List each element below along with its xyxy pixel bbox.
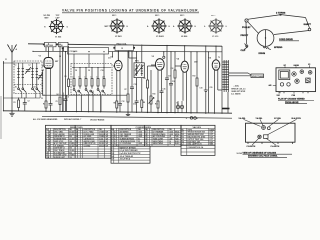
svg-text:C12: C12 xyxy=(122,101,125,103)
svg-text:A.E.1000: A.E.1000 xyxy=(46,44,54,47)
wire: aerial feeder xyxy=(11,62,13,111)
V5 electrodes xyxy=(214,63,218,68)
svg-text:V4 GRID: V4 GRID xyxy=(84,144,92,147)
chassis plan outline xyxy=(276,68,316,92)
svg-text:SURGE LIMIT: SURGE LIMIT xyxy=(54,157,66,159)
wire: AGC drop xyxy=(131,52,133,88)
svg-text:V1: V1 xyxy=(39,56,42,58)
ground: aerial circuit earth xyxy=(9,111,14,116)
capacitor C14 xyxy=(135,99,139,112)
svg-text:C8: C8 xyxy=(75,70,77,72)
svg-text:CAP: CAP xyxy=(56,17,61,20)
svg-text:8: 8 xyxy=(112,150,113,152)
resistor R1 xyxy=(18,98,20,111)
table: condensers grid xyxy=(111,128,181,146)
output transformer T3 xyxy=(222,46,229,92)
V2 electrodes xyxy=(116,64,120,68)
svg-text:NO 1: NO 1 xyxy=(155,15,159,17)
valve V2 IF amplifier W61 xyxy=(115,61,123,71)
svg-text:C5: C5 xyxy=(56,101,58,103)
screened coil box (dashed) aerial coils xyxy=(14,61,42,94)
waveband switch S2d xyxy=(90,90,94,94)
valve socket V5 underside view xyxy=(204,15,228,38)
svg-text:C10: C10 xyxy=(101,70,104,72)
wire: coil pack switch drops xyxy=(77,93,101,112)
valve V3 double-diode-triode DH63 xyxy=(155,59,164,71)
table: valves grid xyxy=(181,128,215,145)
svg-text:C.A.ROTH: C.A.ROTH xyxy=(271,145,280,148)
wire: switch common drops xyxy=(63,91,101,112)
wire: left-hand bus xyxy=(3,61,5,111)
resistor R7 (screen) xyxy=(127,94,129,102)
svg-text:R3: R3 xyxy=(43,104,45,106)
svg-text:C9: C9 xyxy=(88,70,90,72)
wire: V1 connections xyxy=(42,47,64,99)
capacitor C5 (V1 cathode) xyxy=(49,99,53,111)
IFT1 trimmer arrows xyxy=(135,64,144,75)
svg-text:A: A xyxy=(16,48,18,51)
wire: osc section drops xyxy=(60,46,69,111)
svg-text:MET: MET xyxy=(45,18,50,20)
svg-text:ELEC: ELEC xyxy=(175,143,180,145)
svg-text:FRONT: FRONT xyxy=(241,35,249,37)
svg-text:SMOOTHING: SMOOTHING xyxy=(153,143,164,145)
svg-text:.001 μF MICA: .001 μF MICA xyxy=(120,158,131,161)
wire: V5 connections xyxy=(215,46,223,113)
svg-text:H: H xyxy=(44,27,46,29)
svg-text:120: 120 xyxy=(69,157,72,159)
volume control R10 xyxy=(149,96,155,113)
svg-text:R6: R6 xyxy=(114,103,116,105)
svg-text:+ DIAL: + DIAL xyxy=(234,84,239,87)
waveband switch S2e xyxy=(97,89,101,94)
svg-text:V1 X65: V1 X65 xyxy=(55,37,61,39)
valve socket V3 underside view xyxy=(147,15,171,38)
chassis plan: smoothing block (hatched) xyxy=(306,78,311,83)
note: speaker notes xyxy=(231,84,246,95)
svg-text:L8: L8 xyxy=(90,77,92,79)
resistor R4 xyxy=(59,97,61,111)
capacitor C12 (V2 cathode) xyxy=(118,99,122,112)
coil L7 xyxy=(85,68,87,89)
node: coil pack bus dots xyxy=(43,67,104,96)
chassis plan: valve V1 position xyxy=(292,72,296,76)
capacitor C18 xyxy=(169,84,173,113)
chassis plan: mains transformer xyxy=(279,70,290,80)
wire: mains drops xyxy=(222,92,228,113)
table: condensers divider xyxy=(144,125,146,146)
V4 electrodes xyxy=(183,65,187,69)
svg-text:NO 1: NO 1 xyxy=(211,15,215,17)
resistor R6 (V2 cathode) xyxy=(116,99,118,112)
table: resistors divider xyxy=(74,125,76,158)
svg-text:15: 15 xyxy=(112,153,114,155)
svg-text:C19: C19 xyxy=(200,88,203,90)
chassis plan: bottom labels xyxy=(277,92,296,97)
table: valves rows xyxy=(182,128,215,145)
svg-text:V3 DH63: V3 DH63 xyxy=(156,36,164,38)
wire: V2 connections xyxy=(113,52,121,100)
trimmer capacitor T1 xyxy=(25,67,31,74)
coil L5 xyxy=(73,68,75,89)
svg-text:R8: R8 xyxy=(143,102,145,104)
table: condensers extension rows xyxy=(112,146,142,160)
svg-text:7: 7 xyxy=(112,147,113,149)
wire: AVC line xyxy=(148,66,156,113)
svg-text:8 μF 450V ELECTROLYTIC: 8 μF 450V ELECTROLYTIC xyxy=(120,152,142,155)
svg-text:SPRING: SPRING xyxy=(274,47,283,49)
svg-text:V4: V4 xyxy=(177,58,180,61)
svg-text:C2: C2 xyxy=(28,101,30,103)
waveband switch S2a xyxy=(73,89,77,94)
wire: screen feed drop xyxy=(127,52,129,113)
svg-text:R13: R13 xyxy=(193,76,196,78)
aerial A xyxy=(8,45,17,63)
svg-text:L7: L7 xyxy=(84,77,86,79)
capacitor C13 xyxy=(130,87,134,112)
wire: screen rail (top rail B) xyxy=(33,50,222,53)
svg-text:V.A.DBL: V.A.DBL xyxy=(239,117,247,120)
wire: diode load xyxy=(150,70,152,96)
capacitor C6 xyxy=(64,99,68,111)
svg-text:C20: C20 xyxy=(210,87,213,89)
wire: heater rail (bottom second) xyxy=(42,116,232,118)
svg-text:GANG: GANG xyxy=(294,64,300,67)
svg-text:14: 14 xyxy=(145,142,147,145)
svg-text:L10: L10 xyxy=(102,77,105,79)
svg-text:MET: MET xyxy=(55,61,58,63)
svg-text:17: 17 xyxy=(112,159,114,161)
chassis plan: side label A/E xyxy=(269,84,277,87)
wire: chassis rail (bottom) xyxy=(4,111,233,113)
V3 top cap grid xyxy=(163,52,165,59)
IFT1 secondary winding xyxy=(141,64,143,76)
cord drive: tuning spindle xyxy=(308,28,311,31)
fuse holder pair xyxy=(176,101,183,113)
svg-text:.0001: .0001 xyxy=(138,143,142,145)
underside view: coil pack tags xyxy=(258,126,270,139)
wire: HT rail (top rail A) xyxy=(28,44,222,46)
IFT1 primary winding xyxy=(136,64,138,76)
cord drive: mounting bracket xyxy=(244,44,248,50)
wave trap box xyxy=(59,42,69,47)
svg-text:R4: R4 xyxy=(57,93,59,96)
oscillator coil pack box (dashed) xyxy=(71,64,112,95)
electrolytic C19 xyxy=(204,46,208,113)
svg-text:A: A xyxy=(114,142,116,145)
cord drive labels xyxy=(241,13,312,55)
node: junction dots left xyxy=(3,62,25,111)
svg-text:T3: T3 xyxy=(218,57,220,59)
cord drive label underline xyxy=(279,40,299,42)
coil L1 xyxy=(17,66,19,82)
waveband switch S1d xyxy=(36,82,40,92)
svg-text:VALVES: VALVES xyxy=(193,126,202,129)
wire: coil pack top bus xyxy=(72,67,111,69)
table: resistors grid xyxy=(46,128,112,158)
svg-text:ALL VOLTAGES MEASURED: ALL VOLTAGES MEASURED xyxy=(33,118,58,121)
svg-text:ON 250V RANGE: ON 250V RANGE xyxy=(90,118,105,121)
title: VALVE PIN POSITIONS LOOKING AT UNDERSIDE OF VALVEHOLDER xyxy=(62,8,199,13)
waveband switch S1a xyxy=(18,82,22,92)
svg-text:V5 U50: V5 U50 xyxy=(212,36,218,38)
svg-text:H: H xyxy=(127,26,129,28)
cord drive: tuning drum xyxy=(257,30,274,47)
svg-text:A: A xyxy=(173,25,175,28)
cord drive: tension spring xyxy=(263,47,271,50)
svg-text:S.234: S.234 xyxy=(237,152,243,155)
svg-text:2 TURNS: 2 TURNS xyxy=(276,13,286,15)
wire: IFT1 connections xyxy=(137,46,142,99)
svg-text:WITH AVO MODEL 7: WITH AVO MODEL 7 xyxy=(64,118,81,121)
resistor R13 xyxy=(196,78,198,86)
table: condensers frame xyxy=(111,125,181,146)
chassis plan: rear pins xyxy=(280,92,308,94)
svg-text:L9: L9 xyxy=(96,77,98,79)
svg-text:PULLEY: PULLEY xyxy=(242,27,251,29)
IF transformer IFT1 xyxy=(134,63,144,78)
field coil box xyxy=(62,43,137,60)
svg-text:A/E: A/E xyxy=(269,84,273,87)
cord drive: cord run xyxy=(246,14,310,44)
V1 electrodes xyxy=(46,61,52,67)
svg-text:R11: R11 xyxy=(155,104,158,106)
svg-text:B: B xyxy=(49,150,51,152)
wire: HT decoupling drop 1 xyxy=(166,46,168,78)
scan edge mark xyxy=(0,96,2,139)
svg-text:FIELD COIL: FIELD COIL xyxy=(117,43,128,45)
underside view outline xyxy=(246,123,296,142)
svg-text:A: A xyxy=(147,25,149,28)
svg-text:V5F: V5F xyxy=(277,95,281,97)
dial lamp DL1 xyxy=(190,117,196,120)
V3 electrodes xyxy=(157,62,163,69)
trimmer capacitor T2 xyxy=(38,74,42,80)
svg-text:T.A.DBL: T.A.DBL xyxy=(256,117,264,120)
wire: heater feeds xyxy=(191,52,197,114)
table: resistors frame xyxy=(46,125,112,158)
svg-text:SHAFT: SHAFT xyxy=(304,23,312,26)
svg-text:16: 16 xyxy=(169,143,171,145)
svg-text:S2: S2 xyxy=(34,87,36,89)
svg-text:C18: C18 xyxy=(172,81,175,83)
svg-text:BLA.ROTH: BLA.ROTH xyxy=(292,117,302,120)
svg-text:C17: C17 xyxy=(168,76,171,78)
cord drive: idler pulley xyxy=(245,19,248,22)
svg-text:0.1 μF 350V TUBULAR: 0.1 μF 350V TUBULAR xyxy=(120,149,139,152)
resistor R11 (V3 cathode) xyxy=(157,99,159,113)
resistor R5 xyxy=(68,79,70,95)
svg-text:CONSUMPTION .3A: CONSUMPTION .3A xyxy=(188,146,205,149)
svg-text:I.F. COUPLING: I.F. COUPLING xyxy=(120,143,132,145)
svg-text:C16: C16 xyxy=(163,89,166,91)
svg-text:H: H xyxy=(226,26,228,28)
svg-text:.05 μF TUBULAR: .05 μF TUBULAR xyxy=(120,155,134,158)
capacitor C2 xyxy=(23,98,27,111)
wire: AVC return bus xyxy=(42,94,128,96)
resistor R12 grid stopper xyxy=(174,52,176,113)
valve V1 frequency changer X65 xyxy=(44,58,53,69)
svg-text:C1: C1 xyxy=(5,59,7,61)
svg-text:15: 15 xyxy=(121,48,123,50)
svg-text:A.C. MAINS: A.C. MAINS xyxy=(231,93,241,96)
coil L8 xyxy=(91,68,93,89)
underside view: feet xyxy=(248,142,293,144)
wire: coil pack risers xyxy=(74,54,104,68)
svg-text:SPEECH COIL 2.5: SPEECH COIL 2.5 xyxy=(231,88,245,90)
svg-text:V2 W61: V2 W61 xyxy=(115,36,122,38)
underside view caption xyxy=(243,151,293,157)
svg-text:C14: C14 xyxy=(133,103,136,106)
coil L3 xyxy=(31,66,33,82)
svg-text:VALVE PIN POSITIONS LOOKING: VALVE PIN POSITIONS LOOKING AT UNDERSIDE… xyxy=(62,8,199,12)
svg-text:DRUM: DRUM xyxy=(259,53,266,55)
svg-text:16: 16 xyxy=(112,156,114,158)
valve socket V4 underside view xyxy=(173,15,197,38)
wire: switch commons to chassis xyxy=(4,92,41,98)
svg-text:L5: L5 xyxy=(72,77,74,79)
table: resistors rows xyxy=(46,128,108,159)
dial assembly strip xyxy=(68,48,109,55)
wire: coil box top link xyxy=(4,63,41,66)
ground: chassis right xyxy=(126,112,130,115)
svg-text:MAINS R.F. BYPASS: MAINS R.F. BYPASS xyxy=(120,146,137,149)
svg-text:C.N.ROTH: C.N.ROTH xyxy=(247,146,256,148)
aerial series condenser box xyxy=(43,42,58,47)
underside view: bottom labels with leaders xyxy=(247,139,280,148)
svg-text:S1: S1 xyxy=(15,87,17,89)
svg-text:SPKR TRANS: SPKR TRANS xyxy=(252,75,264,78)
coil L4 xyxy=(36,66,38,82)
capacitor C17 xyxy=(165,78,169,113)
chassis plan: valve V3 position xyxy=(308,71,312,75)
note: voltage measurement note xyxy=(33,118,105,122)
table: condensers extension xyxy=(111,146,150,163)
svg-text:R1: R1 xyxy=(14,102,16,104)
svg-text:V2: V2 xyxy=(308,64,310,66)
coil L10 xyxy=(103,68,105,89)
svg-text:F1: F1 xyxy=(177,103,179,105)
wire: rectifier output drop xyxy=(207,52,209,114)
waveband switch S2f xyxy=(102,90,106,94)
wire: V4 connections xyxy=(175,46,186,113)
chassis plan caption xyxy=(278,98,314,104)
waveband switch S1c xyxy=(32,82,36,92)
svg-text:V4 N66: V4 N66 xyxy=(181,35,187,38)
chassis plan: IF can positions xyxy=(280,83,290,86)
chassis plan: top labels xyxy=(284,64,311,68)
svg-text:C6: C6 xyxy=(67,97,69,99)
coil L2 xyxy=(22,66,24,82)
valve socket V1 underside view xyxy=(44,15,69,38)
chassis plan: valve V2 position xyxy=(300,70,304,74)
svg-text:R7: R7 xyxy=(125,89,127,91)
speaker connection block xyxy=(251,74,264,78)
resistor R8 xyxy=(141,99,143,112)
wire: V3 connections xyxy=(151,65,162,99)
svg-text:C13: C13 xyxy=(134,84,137,86)
svg-text:R5: R5 xyxy=(65,76,67,78)
table: condensers rows xyxy=(112,128,181,145)
svg-text:L6: L6 xyxy=(78,77,80,79)
coil L9 xyxy=(97,68,99,89)
waveband switch S2b xyxy=(78,90,82,94)
valve socket V2 underside view xyxy=(105,15,129,38)
svg-text:R12: R12 xyxy=(171,68,174,70)
svg-text:C2B: C2B xyxy=(292,95,296,97)
svg-text:MET: MET xyxy=(105,26,110,28)
coil L6 xyxy=(79,68,81,89)
svg-text:CLIP: CLIP xyxy=(241,50,247,52)
svg-text:6: 6 xyxy=(112,143,113,145)
svg-text:V3: V3 xyxy=(152,56,155,58)
svg-text:18: 18 xyxy=(76,145,78,147)
svg-text:R10: R10 xyxy=(153,94,156,96)
resistor R3 (V1 cathode) xyxy=(45,99,47,111)
svg-text:L2: L2 xyxy=(29,65,31,67)
wire: speaker leads xyxy=(229,73,251,76)
svg-text:R9: R9 xyxy=(144,78,146,80)
svg-text:H: H xyxy=(169,26,171,28)
resistor R9 (AVC) xyxy=(147,80,149,88)
svg-text:A: A xyxy=(204,25,206,28)
svg-text:V5: V5 xyxy=(209,58,212,60)
capacitor C16 coupling xyxy=(160,91,164,113)
coil pack labels xyxy=(72,70,104,79)
svg-text:G: G xyxy=(67,27,69,29)
mains lead mark xyxy=(222,108,230,110)
waveband switch S1b xyxy=(22,82,26,92)
component designator labels xyxy=(5,55,220,106)
valve V4 output N66 xyxy=(181,61,188,72)
svg-text:230V: 230V xyxy=(194,62,199,64)
wire: HT decoupling drop 2 xyxy=(170,52,172,84)
chassis plan: valve V4 position xyxy=(295,79,299,83)
svg-text:NO 1: NO 1 xyxy=(112,15,116,17)
node: rail junction dots xyxy=(32,43,222,118)
svg-text:C3: C3 xyxy=(41,98,43,100)
svg-text:H: H xyxy=(195,26,197,28)
svg-text:C21 1000: C21 1000 xyxy=(70,51,78,53)
waveband switch S2c xyxy=(85,89,89,94)
table: valves notes xyxy=(181,145,215,155)
svg-text:C11: C11 xyxy=(108,58,111,60)
table: valves frame xyxy=(181,125,215,145)
underside view: top labels with leaders xyxy=(239,117,302,135)
svg-text:L1: L1 xyxy=(15,65,17,67)
svg-text:NO 1: NO 1 xyxy=(180,15,184,17)
valve V5 rectifier U50 xyxy=(212,60,220,70)
svg-text:OHMS EXT SPKR: OHMS EXT SPKR xyxy=(231,91,246,93)
